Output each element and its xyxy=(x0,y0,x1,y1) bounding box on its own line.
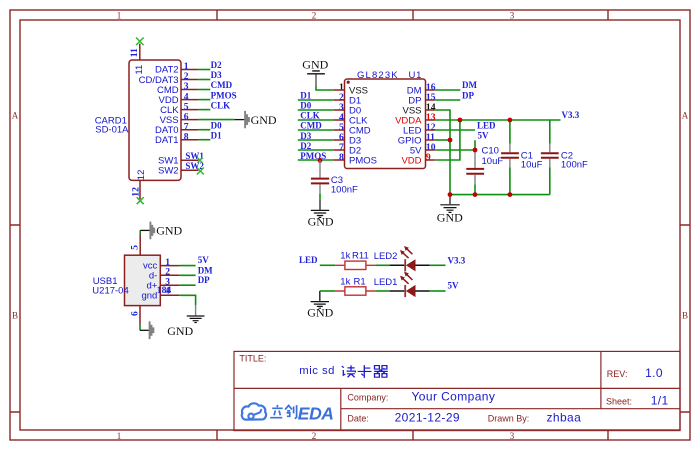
ground symbol GND (R1 row) xyxy=(307,291,333,320)
junction (pin10/C10/5V) xyxy=(473,148,478,153)
svg-text:U217-04: U217-04 xyxy=(92,285,128,296)
svg-text:11: 11 xyxy=(129,48,140,57)
svg-text:GND: GND xyxy=(167,324,193,338)
svg-text:6: 6 xyxy=(130,311,141,316)
ground symbol GND (C3) xyxy=(308,199,334,228)
wire D3 (card pin2) xyxy=(198,79,210,81)
svg-text:Sheet:: Sheet: xyxy=(606,397,632,407)
wire LED to R11 xyxy=(320,264,335,266)
svg-text:11: 11 xyxy=(134,65,145,75)
wire PMOS (card pin4) xyxy=(198,99,210,101)
IC U1 GL823K body xyxy=(345,79,426,169)
U1 right pin numbers xyxy=(426,82,436,163)
svg-text:R1: R1 xyxy=(354,276,366,287)
wire PMOS (U1 pin8) xyxy=(298,159,334,161)
svg-text:EDA: EDA xyxy=(298,404,334,424)
svg-text:8: 8 xyxy=(339,152,344,163)
USB1 pin 6 (bottom shield) xyxy=(130,306,141,331)
wire D0 (card pin7) xyxy=(198,129,210,131)
svg-text:GL823K: GL823K xyxy=(357,70,399,81)
器 xyxy=(374,366,388,378)
svg-text:CLK: CLK xyxy=(211,100,231,110)
ground symbol GND (capacitor rail) xyxy=(437,195,463,225)
svg-text:D0: D0 xyxy=(211,120,222,130)
svg-text:D2: D2 xyxy=(300,141,311,151)
no-connect flag on SW2 xyxy=(197,168,204,175)
svg-text:2021-12-29: 2021-12-29 xyxy=(395,411,460,425)
svg-text:PMOS: PMOS xyxy=(300,151,326,161)
svg-text:REV:: REV: xyxy=(607,369,628,379)
junction (pin11/GND rail) xyxy=(448,138,453,143)
svg-text:GND: GND xyxy=(251,113,277,127)
svg-text:V3.3: V3.3 xyxy=(562,110,580,120)
svg-text:GND: GND xyxy=(308,214,334,228)
U1 right pin names xyxy=(395,85,422,166)
svg-text:D2: D2 xyxy=(211,60,222,70)
wire LED1 to 5V xyxy=(430,290,446,292)
CARD1 pins 1-8 + SW pins xyxy=(181,70,198,171)
wire CLK (U1 pin4) xyxy=(298,119,334,121)
svg-text:gnd: gnd xyxy=(141,291,157,302)
junction (rail/C1) xyxy=(508,192,513,197)
svg-text:LED1: LED1 xyxy=(374,277,398,288)
U1 pin stubs left and right xyxy=(333,90,435,160)
wire gnd (USB pin4) xyxy=(180,295,196,305)
读 xyxy=(342,365,356,377)
svg-text:100nF: 100nF xyxy=(561,159,588,170)
svg-text:Your Company: Your Company xyxy=(412,390,496,404)
svg-text:CMD: CMD xyxy=(300,121,322,131)
svg-text:12: 12 xyxy=(136,170,147,181)
ground flag GND (USB pin6) xyxy=(140,321,194,339)
svg-text:PMOS: PMOS xyxy=(211,90,237,100)
svg-text:Company:: Company: xyxy=(347,393,388,403)
capacitor C1 xyxy=(501,120,543,195)
svg-text:5V: 5V xyxy=(198,255,210,265)
title CJK 读卡器 xyxy=(342,365,388,378)
wire DM (U1 pin16) xyxy=(435,89,461,91)
wire ground rail under capacitors xyxy=(450,194,550,196)
wire GND (card pin6) xyxy=(198,119,234,121)
wire 5V (USB pin1) xyxy=(180,265,196,267)
svg-text:LED: LED xyxy=(477,120,496,130)
wire GND to R1 xyxy=(320,290,335,292)
svg-text:U1: U1 xyxy=(409,70,423,81)
svg-text:D1: D1 xyxy=(300,91,311,101)
svg-text:2: 2 xyxy=(312,431,317,441)
junction (pin8/C3) xyxy=(318,158,323,163)
svg-text:1: 1 xyxy=(117,431,122,441)
wire 5V (U1 pin10) xyxy=(435,140,475,150)
svg-text:PMOS: PMOS xyxy=(349,156,377,167)
ground symbol GND (U1 pin1) xyxy=(302,57,328,86)
diode LED2 xyxy=(390,246,430,271)
U1 left pin numbers xyxy=(339,82,344,163)
svg-text:1.0: 1.0 xyxy=(645,366,663,380)
svg-text:LED: LED xyxy=(299,255,318,265)
svg-text:LED2: LED2 xyxy=(374,251,398,262)
pin 12 (bottom shell pin) xyxy=(131,170,147,200)
wire R1 to LED1 xyxy=(376,290,390,292)
junction (pin13/V2) xyxy=(458,118,463,123)
wire GPIO pin11 to ground rail xyxy=(435,139,450,141)
卡 xyxy=(358,365,372,378)
svg-text:TITLE:: TITLE: xyxy=(239,354,266,364)
svg-text:CLK: CLK xyxy=(300,111,320,121)
USB1 pin numbers xyxy=(157,257,172,297)
resistor R1 xyxy=(335,287,375,295)
svg-text:5: 5 xyxy=(129,245,140,250)
svg-text:Drawn By:: Drawn By: xyxy=(488,414,530,424)
wire D3 (U1 pin6) xyxy=(298,139,334,141)
no-connect flag on pin 12 xyxy=(137,197,144,204)
svg-text:DP: DP xyxy=(198,275,210,285)
ground flag GND (USB pin5) xyxy=(140,222,182,240)
svg-text:SW2: SW2 xyxy=(158,166,179,177)
wire CLK (card pin5) xyxy=(198,109,210,111)
svg-text:9: 9 xyxy=(426,152,431,163)
svg-text:DM: DM xyxy=(462,80,477,90)
junction (C1 top) xyxy=(508,118,513,123)
svg-text:A: A xyxy=(682,111,689,121)
ground symbol GND (USB pin4) xyxy=(187,305,205,322)
svg-text:DAT1: DAT1 xyxy=(155,135,179,146)
CARD1 pin names xyxy=(139,65,180,177)
wire DM (USB pin2) xyxy=(180,274,196,276)
svg-text:D3: D3 xyxy=(300,131,311,141)
logo LCEDA cloud xyxy=(242,403,266,419)
svg-text:1: 1 xyxy=(117,10,122,20)
svg-text:3: 3 xyxy=(510,431,515,441)
svg-text:R11: R11 xyxy=(352,251,369,262)
pin 11 (top shell pin) xyxy=(129,44,145,75)
svg-text:8: 8 xyxy=(184,131,189,142)
wire D2 (U1 pin7) xyxy=(298,149,334,151)
svg-text:5V: 5V xyxy=(478,130,490,140)
svg-text:D1: D1 xyxy=(211,130,222,140)
svg-text:GND: GND xyxy=(307,306,333,320)
svg-text:A: A xyxy=(12,111,19,121)
svg-text:B: B xyxy=(12,311,18,321)
svg-text:DP: DP xyxy=(462,90,474,100)
svg-text:Date:: Date: xyxy=(347,414,369,424)
wire V3.3 (U1 pin13) xyxy=(435,119,561,121)
wire VDD pin9 up to V3.3 xyxy=(435,120,460,160)
U1 left pin names xyxy=(349,85,377,166)
svg-text:C10: C10 xyxy=(482,145,499,156)
svg-text:GND: GND xyxy=(302,57,328,71)
capacitor C2 xyxy=(541,120,588,195)
TITLE BLOCK xyxy=(234,351,680,430)
wire D2 (card pin1) xyxy=(198,69,210,71)
wire DP (U1 pin15) xyxy=(435,99,461,101)
wire D1 (card pin8) xyxy=(198,139,210,141)
capacitor C10 xyxy=(466,145,503,194)
ground flag GND (card pin6) xyxy=(235,111,277,128)
wire DP (USB pin3) xyxy=(180,284,196,286)
resistor R11 xyxy=(335,261,375,269)
svg-text:4: 4 xyxy=(165,286,170,297)
wire LED (U1 pin12) xyxy=(435,129,475,131)
svg-text:D3: D3 xyxy=(211,70,222,80)
connector CARD1 body xyxy=(129,60,181,180)
diode LED1 xyxy=(390,272,430,298)
no-connect flag on pin 11 xyxy=(136,38,144,46)
svg-text:GND: GND xyxy=(156,224,182,238)
CARD1 pin numbers xyxy=(184,61,189,142)
wire VSS pin14 to ground rail xyxy=(435,110,450,195)
svg-text:100nF: 100nF xyxy=(331,184,358,195)
USB1 pin 5 (top shield) xyxy=(129,230,140,255)
svg-text:10uF: 10uF xyxy=(521,159,543,170)
svg-text:mic sd: mic sd xyxy=(299,365,335,377)
svg-text:2: 2 xyxy=(312,10,317,20)
svg-text:12: 12 xyxy=(131,187,142,197)
svg-text:GND: GND xyxy=(437,210,463,224)
junction (rail/C10) xyxy=(473,192,478,197)
svg-text:10uF: 10uF xyxy=(482,156,504,167)
svg-text:zhbaa: zhbaa xyxy=(547,411,582,425)
svg-text:5V: 5V xyxy=(448,280,460,290)
connector USB1 body xyxy=(125,255,161,305)
USB1 pins 1-4 stubs xyxy=(160,266,179,296)
svg-text:B: B xyxy=(682,311,688,321)
svg-text:1k: 1k xyxy=(340,276,350,287)
wire D1 (U1 pin2) xyxy=(298,99,334,101)
svg-text:V3.3: V3.3 xyxy=(448,255,466,265)
svg-text:CMD: CMD xyxy=(211,80,233,90)
svg-text:1/1: 1/1 xyxy=(651,394,669,408)
svg-text:1k: 1k xyxy=(340,251,350,262)
svg-text:D0: D0 xyxy=(300,101,311,111)
junction (rail/GND) xyxy=(448,192,453,197)
wire D0 (U1 pin3) xyxy=(298,109,334,111)
no-connect flag on SW1 xyxy=(198,158,203,163)
wire CMD (U1 pin5) xyxy=(298,129,334,131)
USB1 pin names xyxy=(141,261,157,302)
capacitor C3 xyxy=(311,160,358,199)
svg-text:SD-01A: SD-01A xyxy=(95,124,129,135)
svg-text:VDD: VDD xyxy=(401,156,421,167)
wire GND to U1 pin1 xyxy=(316,86,333,90)
wire R11 to LED2 xyxy=(376,264,390,266)
wire CMD (card pin3) xyxy=(198,89,210,91)
wire LED2 to V3.3 xyxy=(430,264,446,266)
logo text 立创EDA xyxy=(270,405,296,419)
svg-text:3: 3 xyxy=(510,10,515,20)
